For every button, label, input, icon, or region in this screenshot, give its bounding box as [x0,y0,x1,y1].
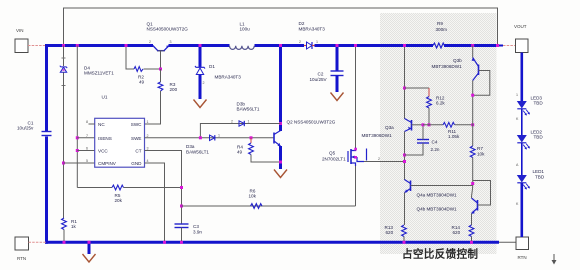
svg-text:2: 2 [231,120,233,124]
node GND/rail [163,241,166,244]
node D3b tap [279,122,282,125]
node CT/R5 [180,186,183,189]
svg-text:3.9n: 3.9n [193,230,202,235]
svg-text:NSS40500UW3T2G: NSS40500UW3T2G [147,27,189,32]
node SWE/D3b [199,136,202,139]
wire D1 to ground [199,75,202,99]
svg-text:U1: U1 [102,95,108,100]
svg-text:LED1: LED1 [533,169,545,174]
svg-text:BAW56LT1: BAW56LT1 [186,150,209,155]
node rail/Q3b emitter [471,44,474,47]
svg-text:49: 49 [237,150,243,155]
node C4 bottom tap [403,154,406,157]
svg-text:1k: 1k [71,224,77,229]
svg-text:MBRA340T3: MBRA340T3 [299,27,326,32]
wire D4 upper lead [63,46,65,67]
svg-text:49: 49 [139,80,145,85]
svg-text:MBRA340T3: MBRA340T3 [215,75,242,80]
svg-text:占空比反馈控制: 占空比反馈控制 [402,248,478,261]
wire CT [145,151,182,225]
svg-text:1: 1 [316,40,318,44]
ground arrow under C2 [331,93,344,101]
svg-text:7: 7 [86,134,88,138]
node rail/D4 [62,44,65,47]
ground arrow under D1 [194,100,207,108]
wire RTN right box to rail [499,241,516,243]
svg-text:ISENS: ISENS [98,136,112,141]
wire R3 to SWC [145,91,161,124]
svg-text:CT: CT [135,149,141,154]
svg-text:6.2k: 6.2k [436,101,445,106]
svg-text:1: 1 [248,120,250,124]
wire Q3a emitter down [404,132,406,181]
LED1 [517,169,545,190]
transistor Q1 [147,22,189,51]
svg-text:Q5: Q5 [329,151,336,156]
resistor R1 [62,218,78,229]
svg-text:2: 2 [203,81,205,85]
wire Q5 to Q3a emitter line [364,161,405,163]
resistor R12 [427,96,446,108]
svg-text:MBT3906DW1: MBT3906DW1 [432,64,463,69]
ground stub on bottom rail [88,242,91,254]
wire VIN to rail [28,45,46,47]
wire LED2 to LED1 [521,143,523,175]
catch diode branch: wire rail to D1 [199,46,202,68]
svg-text:Q3a: Q3a [385,125,394,130]
wire R12 feed [405,87,430,89]
VOUT port box [514,24,528,53]
svg-text:VOUT: VOUT [514,24,527,29]
svg-text:620: 620 [453,230,461,235]
LED3 [517,96,544,116]
svg-text:200: 200 [170,87,178,92]
svg-text:BAW56LT1: BAW56LT1 [237,107,260,112]
left vertical rail [45,44,48,131]
node ISENS tap [76,136,79,139]
wire Q4b collector up to node [472,186,473,199]
svg-text:10k: 10k [249,194,257,199]
svg-text:Q2 NSS40501UW3T2G: Q2 NSS40501UW3T2G [287,120,336,125]
wire VCC [77,150,94,152]
wire R2 feed from rail [126,46,134,70]
wire Q4a emitter to R13 [404,193,406,226]
wire R13 to rail [403,237,405,243]
wire D4 lower to CMPINV node and R1 [63,73,65,219]
wire to VOUT [498,45,504,47]
svg-text:MMSZ11VET1: MMSZ11VET1 [84,71,114,76]
resistor R6 [249,189,263,209]
node rail/C2 [336,44,339,47]
node VCC tap [76,149,79,152]
resistor R3 [158,82,178,92]
RTN port box right [516,237,529,260]
wire LED3 to LED2 [521,109,523,135]
node rail/R2 [125,44,128,47]
node CMPINV tap [62,162,65,165]
resistor R14 [452,225,474,236]
svg-text:Q4b MBT3904DW1: Q4b MBT3904DW1 [417,207,458,212]
wire Q5 drain from rail [355,46,357,148]
wire Q3a collector chain from rail [404,46,406,120]
svg-text:TBD: TBD [535,175,545,180]
top rail segment 4 [315,44,434,47]
node Q3b collector/base tie [471,94,474,97]
zener diode D4 [60,58,114,86]
wire to R5 [77,187,112,189]
top rail segment 3 [255,44,305,47]
svg-text:10k: 10k [477,152,485,157]
transistor Q3a (PNP) [362,119,412,139]
wire GND pin [145,163,165,242]
wire R7 bottom to Q4 node [472,158,474,186]
svg-text:3: 3 [170,40,172,44]
RTN port box left [15,237,29,261]
svg-text:1: 1 [147,120,149,124]
svg-text:4: 4 [147,159,149,163]
wire Q3a base to R11 line [412,124,424,126]
capacitor C3 [175,224,203,235]
svg-text:Q3b: Q3b [453,58,462,63]
node rail/Q3a [403,44,406,47]
wire Q3b base loop [473,71,490,96]
node Q4 base node [471,182,474,185]
diode D3b [231,102,260,127]
switch node vertical to Q2 [279,46,282,132]
wire C4 bottom to emitter line [405,143,424,155]
output cap branch: wire rail to C2 [336,46,339,72]
resistor R9 [433,21,447,48]
wire R5 to CT node [124,187,182,189]
wire Q4a base [411,185,473,187]
svg-text:NC: NC [98,122,105,127]
wire Q1 base [160,51,162,69]
wire line B (rail to R5) [76,46,78,188]
svg-text:TBD: TBD [534,135,544,140]
node SWE/R4 [250,136,253,139]
svg-text:1: 1 [218,134,220,138]
capacitor C4 [417,140,440,153]
svg-text:3: 3 [147,147,149,151]
transistor Q4a (NPN) [405,180,458,198]
svg-text:R7: R7 [477,146,483,151]
node gnd stub/rail [88,241,91,244]
node CT/R6 [180,205,183,208]
wire R1 to rail [63,230,65,243]
svg-text:1.05k: 1.05k [448,134,460,139]
svg-text:Q4a MBT3904DW1: Q4a MBT3904DW1 [417,193,458,198]
wire ISENS [77,137,94,139]
wire RTN to rail [29,241,47,243]
transistor Q2 [274,120,336,147]
svg-text:D2: D2 [299,21,305,26]
ground arrow under Q2 [274,170,287,178]
svg-text:R9: R9 [437,21,443,26]
wire base line to R11 [423,124,443,126]
capacitor C2 [310,71,344,82]
bottom rail [45,241,499,244]
wire C4 top [422,125,424,140]
node R13/rail [403,241,406,244]
svg-text:D1: D1 [209,64,215,69]
pin stubs [89,123,95,125]
node R14/rail [470,241,473,244]
top rail segment 5 [444,44,498,47]
top rail segment 2 [169,44,230,47]
svg-text:10u/25V: 10u/25V [310,77,328,82]
resistor R7 [470,146,485,157]
svg-text:C4: C4 [432,140,438,145]
node rail/switch [279,44,282,47]
wire D3b branch [200,124,280,138]
svg-text:10u/25v: 10u/25v [17,126,34,131]
inductor L1 [230,22,255,50]
resistor R2 [134,67,145,85]
node R12/base line [428,123,431,126]
svg-text:2N7002LT1: 2N7002LT1 [322,157,346,162]
shaded feedback-control region [380,13,497,254]
node R12 tap [403,87,406,90]
svg-text:5: 5 [86,159,88,163]
wire R6 line [182,205,356,207]
node rail/D1 [199,44,202,47]
wire R12 bottom [428,108,430,125]
wire Q4b emitter to R14 [471,214,473,226]
wire C3 to rail [181,228,183,243]
wire Q3b collector down [472,81,474,147]
svg-text:SWE: SWE [131,136,141,141]
diode D2 [299,21,326,49]
capacitor C1 [17,121,52,136]
svg-text:TBD: TBD [534,101,544,106]
svg-text:2: 2 [378,157,380,161]
node C4/base line [422,123,425,126]
svg-text:D3a: D3a [186,144,195,149]
svg-text:RTN: RTN [518,255,527,260]
resistor R11 [443,122,460,139]
wire CMPINV [64,162,95,164]
svg-text:VCC: VCC [98,149,108,154]
diode D1 [195,64,241,85]
svg-text:300m: 300m [436,27,448,32]
svg-text:RTN: RTN [17,256,26,261]
wire SWE to Q2 base [145,137,274,139]
LED2 [517,130,544,150]
node emitter/R4 [279,161,282,164]
wire R2 to base node [144,68,161,70]
op-amp controller U1 [86,95,149,168]
svg-text:2: 2 [299,40,301,44]
resistor R4 [237,138,253,155]
svg-text:C3: C3 [193,224,199,229]
svg-text:2.2n: 2.2n [431,147,440,152]
top feedback loop wire [64,8,498,46]
resistor R13 [385,225,407,236]
svg-text:VIN: VIN [16,28,24,33]
svg-text:6: 6 [86,147,88,151]
transistor Q4b (NPN) [417,198,478,214]
node C3/rail [180,241,183,244]
wire R14 to rail [471,237,473,243]
transistor Q5 (NMOS) [322,148,367,167]
svg-text:2: 2 [147,134,149,138]
node rail/loop [496,44,499,47]
svg-text:8: 8 [86,120,88,124]
wire base node to R3 [160,69,162,82]
svg-text:20k: 20k [115,198,123,203]
wire Q5 source down to R6 line [355,166,357,206]
wire C2 to ground [336,76,339,93]
wire LED1 to RTN [520,183,523,237]
svg-text:C2: C2 [318,72,324,77]
resistor R5 [112,185,123,203]
node R11/Q3b line [471,123,474,126]
node rail/line B [76,44,79,47]
svg-text:100u: 100u [240,27,251,32]
svg-text:2: 2 [149,40,151,44]
wire Q2 emitter to ground [279,146,282,169]
svg-text:CMPINV: CMPINV [98,161,117,166]
top rail segment 1 [45,44,153,47]
node R1/rail [63,241,66,244]
svg-text:SWC: SWC [131,122,142,127]
ground arrow bottom [83,254,96,262]
svg-text:MBT3906DW1: MBT3906DW1 [362,133,393,138]
node rail/Q5 [354,44,357,47]
node Q1 base / R3 [159,68,162,71]
wire Q4b base loop [473,181,491,206]
LED string: wire VOUT down [520,53,523,102]
wire R4 bottom to emitter node [251,155,281,163]
diode D3a [186,134,220,155]
node Q5 tap [403,160,406,163]
transistor Q3b (PNP) [432,46,479,81]
wire R11 to Q3b collector line [455,124,473,126]
svg-text:GND: GND [131,161,142,166]
svg-text:620: 620 [386,230,394,235]
VIN port box [15,28,28,53]
power down arrow [552,254,557,265]
svg-text:1: 1 [516,93,518,97]
